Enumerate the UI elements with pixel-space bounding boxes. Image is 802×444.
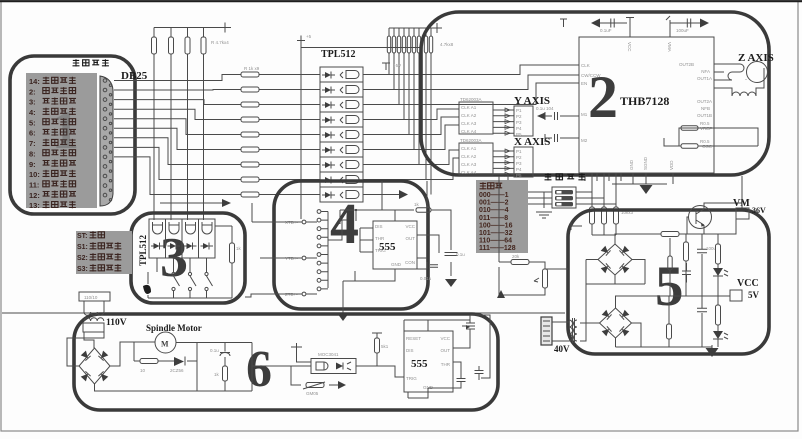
transformer T1 110V <box>79 292 110 301</box>
svg-text:R0.5: R0.5 <box>700 121 710 126</box>
resistor R18 bank <box>407 36 410 53</box>
resistor R7 series <box>241 102 259 107</box>
wire 555 bottom <box>355 262 427 281</box>
DB25 pin 12 <box>103 184 107 188</box>
wire DB25 pin 7 to R11 <box>114 138 241 165</box>
wire block4 gnd drop <box>343 281 355 313</box>
svg-text:DIS: DIS <box>375 224 383 229</box>
label 并行接口 <box>73 59 80 66</box>
DB25 pin 10 <box>103 165 107 169</box>
transformer T2 <box>569 318 577 343</box>
wire U2 bottom pins to dip resistors <box>592 173 616 207</box>
legend box (grey) <box>76 231 132 274</box>
DB25 pin 1 <box>103 79 107 83</box>
svg-text:OUT: OUT <box>441 348 451 353</box>
wire block5 lower rails <box>669 296 718 324</box>
svg-text:Z AXIS: Z AXIS <box>738 52 774 64</box>
svg-text:CW/CCW: CW/CCW <box>581 73 601 78</box>
svg-text:0.1u 104: 0.1u 104 <box>536 106 554 111</box>
resistor R17 bank <box>402 36 405 53</box>
svg-text:4:: 4: <box>29 108 36 117</box>
block 3 outline (limit inputs) <box>131 213 245 303</box>
wire bank rail <box>389 23 442 33</box>
capacitor C15 <box>457 379 466 382</box>
wire U2 bottom stubs <box>585 173 621 181</box>
svg-text:TRIG: TRIG <box>375 248 386 253</box>
resistor R18 over 555 <box>416 208 431 213</box>
DB25 pin 5 <box>103 117 107 121</box>
svg-text:11:: 11: <box>29 181 39 190</box>
motor M1 Z axis <box>747 62 768 83</box>
resistor R41 photoresistor <box>306 383 324 388</box>
diode D3 flyback <box>174 357 184 366</box>
capacitor C16 <box>475 371 484 374</box>
svg-text:6:: 6: <box>29 129 36 138</box>
DB25 pin 3 <box>103 98 107 102</box>
ground below block 4 <box>337 313 349 321</box>
switch S3 limit <box>205 272 208 275</box>
resistor R36 <box>667 324 672 339</box>
connector J1 DB25 body <box>100 76 113 206</box>
optocoupler U8 MOC3041 <box>311 359 356 374</box>
svg-text:13:: 13: <box>29 201 40 210</box>
switch ST stop button <box>143 285 151 294</box>
svg-text:Spindle Motor: Spindle Motor <box>146 323 202 333</box>
svg-text:36V: 36V <box>752 206 766 215</box>
DB25 pin 2 <box>103 88 107 92</box>
wire R13 to optocoupler <box>259 194 320 196</box>
svg-text:R 4.7kx4: R 4.7kx4 <box>211 40 229 45</box>
svg-text:GND: GND <box>629 159 634 170</box>
wire base vref divider <box>669 238 671 296</box>
svg-text:1k: 1k <box>236 246 242 251</box>
DB25 pin 8 <box>103 146 107 150</box>
resistor R15 bank <box>392 36 395 53</box>
svg-text:SGND: SGND <box>643 156 648 170</box>
svg-text:CLK A3: CLK A3 <box>461 121 477 126</box>
capacitor C1 <box>611 19 614 28</box>
resistor R2 pull-up <box>169 37 174 54</box>
resistor R26 dip pulldown <box>590 207 595 224</box>
wire R8 to optocoupler <box>259 119 320 121</box>
wire R9 to optocoupler <box>259 134 320 136</box>
svg-text:P3: P3 <box>516 120 522 125</box>
wire 555-2 top <box>404 320 470 331</box>
resistor R27 dip pulldown <box>602 207 607 224</box>
wire pads to bus <box>306 212 347 295</box>
block 1 outline (parallel port) <box>10 56 135 214</box>
resistor R12 series <box>241 177 259 182</box>
wire B3 out <box>95 342 253 391</box>
wire B1 connections <box>586 234 661 323</box>
switch S1 limit <box>172 272 175 275</box>
optocoupler U3f TPL512 cell <box>320 142 363 157</box>
resistor R40 <box>140 359 158 364</box>
capacitor C5 with arrow <box>537 113 545 120</box>
wire 555-2 bottom <box>408 392 428 398</box>
svg-text:THB7128: THB7128 <box>620 94 669 108</box>
svg-text:S2:: S2: <box>77 255 88 262</box>
pin name table (grey) <box>26 73 97 208</box>
svg-text:0.01u: 0.01u <box>420 276 432 281</box>
svg-text:CLK A1: CLK A1 <box>461 146 477 151</box>
svg-text:2CZ56: 2CZ56 <box>170 368 184 373</box>
svg-text:OUT1A: OUT1A <box>697 76 712 81</box>
connector header Y AXIS <box>514 106 533 136</box>
IC U9 555 body <box>404 331 453 392</box>
resistor R8 series <box>241 117 259 122</box>
svg-text:VMA: VMA <box>667 42 672 52</box>
DB25 pin 4 <box>103 107 107 111</box>
capacitor C11 electrolytic <box>697 308 707 311</box>
svg-text:000——1: 000——1 <box>479 192 509 199</box>
svg-text:010——4: 010——4 <box>479 207 509 214</box>
resistor R14 bank <box>387 36 390 53</box>
svg-text:P5: P5 <box>516 173 522 178</box>
wire spindle signal <box>252 365 311 367</box>
microstep table (grey) <box>476 180 528 253</box>
wire U2 outputs to Z motor <box>714 64 746 80</box>
arrow pulse out <box>399 190 408 199</box>
svg-text:VCC: VCC <box>737 278 759 289</box>
svg-text:4: 4 <box>330 191 359 256</box>
resistor R24 NFB <box>681 144 698 149</box>
DB25 pin 7 <box>103 136 107 140</box>
svg-text:14:: 14: <box>29 77 40 86</box>
resistor R34 <box>684 242 689 261</box>
svg-text:011——8: 011——8 <box>479 215 508 222</box>
wire DB25 pin 8 to R12 <box>114 147 241 179</box>
svg-text:1: 1 <box>52 100 79 160</box>
svg-text:OUT1B: OUT1B <box>697 113 712 118</box>
block 2 outline (driver) <box>421 12 769 175</box>
wire pullups into array <box>154 219 204 220</box>
resistor R30 vref <box>511 260 529 265</box>
wire R11 to optocoupler <box>259 164 320 166</box>
pin tick U8 top <box>291 343 302 347</box>
svg-text:CLK A2: CLK A2 <box>461 113 477 118</box>
wire U8 aux <box>291 347 338 385</box>
block 4 outline (pulse gen) <box>274 181 428 309</box>
svg-text:EN: EN <box>581 81 587 86</box>
wire 555 right <box>417 210 451 276</box>
wire opto rows 4-9 to driver boxes <box>430 109 459 180</box>
svg-text:DIS: DIS <box>406 348 414 353</box>
DB25 pin 9 <box>103 155 107 159</box>
optocoupler U3a TPL512 cell <box>320 67 363 82</box>
connector J2 40V <box>541 317 552 345</box>
resistor R37 <box>716 305 721 325</box>
svg-text:8:: 8: <box>29 149 36 158</box>
optocoupler U3g TPL512 cell <box>320 157 363 172</box>
svg-text:+5V: +5V <box>393 63 401 68</box>
resistor R5 series <box>241 72 259 77</box>
pin block5 input tick <box>571 222 582 230</box>
bridge rectifier B2 <box>600 308 632 338</box>
svg-text:20k: 20k <box>512 254 520 259</box>
block 5 outline (power supply) <box>568 210 769 354</box>
pin VM terminal <box>736 208 749 219</box>
svg-text:P3: P3 <box>516 161 522 166</box>
svg-text:NFB: NFB <box>701 106 710 111</box>
svg-text:MOC3041: MOC3041 <box>318 352 339 357</box>
wire decoupling group B <box>666 16 700 37</box>
resistor R42 <box>375 338 380 353</box>
wire DB25 pin 2 to R6 <box>114 89 241 92</box>
wire 555 top rail <box>340 181 430 224</box>
svg-text:1k: 1k <box>414 202 420 207</box>
svg-text:VCC: VCC <box>440 336 450 341</box>
svg-text:+5: +5 <box>306 34 312 39</box>
bridge rectifier B3 <box>79 348 110 384</box>
wire DIP common left <box>508 175 552 208</box>
resistor R3 pull-up <box>185 37 190 54</box>
svg-text:THR: THR <box>375 236 385 241</box>
DB25 pin 13 <box>103 193 107 197</box>
wire 555 left stubs <box>360 228 373 252</box>
svg-text:110/10: 110/10 <box>84 295 98 300</box>
optocoupler U3i TPL512 cell <box>320 187 363 202</box>
svg-text:M1: M1 <box>581 112 588 117</box>
wire +5V vertical feed <box>300 41 302 220</box>
svg-text:TD62003A: TD62003A <box>460 138 482 143</box>
svg-text:100u: 100u <box>706 246 717 251</box>
pin +5V stub above optocouplers <box>297 36 305 41</box>
svg-text:5k1: 5k1 <box>381 344 389 349</box>
wire motor loop <box>134 343 252 392</box>
pin +5V stub mid <box>382 63 390 70</box>
mosfet Q2 <box>462 315 475 338</box>
svg-text:OUT2B: OUT2B <box>679 62 694 67</box>
ground C8 <box>445 279 457 287</box>
wire pins X AXIS <box>493 151 514 174</box>
svg-text:0.1u: 0.1u <box>210 348 219 353</box>
resistor R22 bank <box>429 36 432 53</box>
arrow signal out <box>338 381 346 389</box>
wire B2 connections <box>582 296 712 347</box>
svg-text:S1:: S1: <box>77 244 88 251</box>
capacitor C13 <box>220 343 230 367</box>
wire pull-ups down to block 3 <box>154 54 204 219</box>
resistor R41v <box>223 366 228 381</box>
wire vref to block5 <box>545 268 568 270</box>
svg-text:TPL512: TPL512 <box>138 234 148 266</box>
svg-text:10: 10 <box>140 368 146 373</box>
svg-text:555: 555 <box>411 358 428 370</box>
svg-text:CLK A3: CLK A3 <box>461 162 477 167</box>
svg-text:P2: P2 <box>516 114 522 119</box>
wire opto outputs row bus <box>363 75 448 195</box>
potentiometer RV1 <box>543 269 548 288</box>
ground block5 <box>706 348 719 357</box>
svg-text:6: 6 <box>246 341 272 398</box>
svg-text:M: M <box>161 340 169 349</box>
svg-text:P1: P1 <box>516 108 522 113</box>
switch SW1 DIP body <box>552 187 576 208</box>
motor M2 spindle <box>155 332 176 353</box>
wire J2 to B2 <box>552 322 586 341</box>
IC U2 THB7128 body <box>579 37 714 173</box>
svg-text:12:: 12: <box>29 191 40 200</box>
svg-text:TPL512: TPL512 <box>321 49 355 60</box>
wire DB25 pin 1 to R5 <box>114 75 241 81</box>
optocoupler U3h TPL512 cell <box>320 172 363 187</box>
wire R7 to optocoupler <box>259 104 320 106</box>
wire DB25 pin 6 to R10 <box>114 128 241 149</box>
block 6 outline (spindle) <box>74 314 498 410</box>
svg-text:NFA: NFA <box>701 69 710 74</box>
wire DB25 pin 4 to R8 <box>114 109 241 119</box>
optocoupler U3b TPL512 cell <box>320 82 363 97</box>
wire +5V horizontal feed <box>301 47 420 49</box>
svg-text:OUT: OUT <box>406 236 416 241</box>
diode D2 LED <box>713 331 723 339</box>
resistor R28 dip pulldown <box>614 207 619 224</box>
resistor R10 series <box>241 147 259 152</box>
wire Q2 drain <box>470 315 490 378</box>
svg-text:OUT2A: OUT2A <box>697 99 712 104</box>
svg-text:P4: P4 <box>516 126 522 131</box>
svg-text:S3:: S3: <box>77 266 88 273</box>
capacitor C8 <box>445 253 458 256</box>
svg-text:0.1uF: 0.1uF <box>600 28 612 33</box>
svg-text:THR: THR <box>441 362 451 367</box>
arrow into block 4 <box>222 199 231 207</box>
svg-text:110——64: 110——64 <box>479 238 512 245</box>
optocoupler U3c TPL512 cell <box>320 97 363 112</box>
svg-text:CON: CON <box>405 260 415 265</box>
svg-text:CLK A4: CLK A4 <box>461 129 477 134</box>
wire R6 to optocoupler <box>259 89 320 91</box>
capacitor C10 electrolytic <box>697 249 707 252</box>
resistor R20 bank <box>417 36 420 53</box>
wire Q1 connections <box>687 203 742 234</box>
resistor R11 series <box>241 162 259 167</box>
svg-text:TD62003A: TD62003A <box>460 97 482 102</box>
resistor R19 bank <box>412 36 415 53</box>
wire VM feed <box>741 176 743 208</box>
svg-text:40V: 40V <box>554 344 570 354</box>
pin +5V tick <box>560 19 567 27</box>
connector header X AXIS <box>514 147 533 177</box>
wire DB25 pin 9 to R13 <box>114 157 241 195</box>
wire U2 left stubs <box>565 65 579 138</box>
optocoupler U7 array <box>149 219 166 258</box>
wire +5V rail top-left <box>154 28 225 38</box>
resistor R21 bank <box>424 36 427 53</box>
wire U2 bottom to ground <box>612 173 673 184</box>
resistor R16 bank <box>397 36 400 53</box>
svg-text:P1: P1 <box>516 149 522 154</box>
capacitor C17 <box>668 256 672 270</box>
wire U8 to 555-2 <box>356 366 404 377</box>
transistor Q1 <box>689 206 712 229</box>
wire decoupling group A <box>599 18 634 38</box>
svg-text:9:: 9: <box>29 160 36 169</box>
svg-text:110V: 110V <box>106 318 127 328</box>
svg-text:GND: GND <box>391 262 402 267</box>
svg-text:2:: 2: <box>29 87 36 96</box>
optocoupler U3d TPL512 cell <box>320 112 363 127</box>
resistor R4 pull-up <box>201 37 206 54</box>
wire DB25 pin 5 to R9 <box>114 119 241 135</box>
DB25 pin 11 <box>103 174 107 178</box>
pin +5V rail end <box>225 23 231 33</box>
resistor R6 series <box>241 87 259 92</box>
resistor R1 pull-up <box>152 37 157 54</box>
svg-text:R0.5: R0.5 <box>700 139 710 144</box>
ground U2 <box>640 185 653 194</box>
label 细分数 <box>480 182 487 189</box>
wire 555-2 right <box>453 338 470 378</box>
svg-text:111——128: 111——128 <box>479 245 516 252</box>
wire mains rail <box>2 312 565 314</box>
svg-text:P4: P4 <box>516 167 522 172</box>
wire opto rows 1-3 to THB7128 inputs <box>448 65 579 105</box>
IC U5 driver X AXIS <box>459 143 493 175</box>
wire DB25 pin 3 to R7 <box>114 100 241 105</box>
svg-text:VCC: VCC <box>627 42 632 52</box>
resistor R13 series <box>241 192 259 197</box>
pin VCC terminal <box>730 290 742 301</box>
DB25 pin 6 <box>103 126 107 130</box>
resistor R33 base <box>661 232 679 237</box>
svg-text:RESET: RESET <box>406 336 421 341</box>
svg-text:CLK: CLK <box>581 63 590 68</box>
capacitor C3 <box>687 19 690 28</box>
wire bank stubs <box>389 28 431 36</box>
svg-text:M2: M2 <box>581 138 588 143</box>
wire arrow feed <box>160 202 222 204</box>
IC U4 driver Y AXIS <box>459 102 493 134</box>
wire R10 to optocoupler <box>259 149 320 151</box>
svg-text:10:: 10: <box>29 170 40 179</box>
svg-text:CLK A4: CLK A4 <box>461 170 477 175</box>
wire T1 to B3 <box>67 332 104 366</box>
svg-text:VDD: VDD <box>669 160 674 170</box>
svg-text:001——2: 001——2 <box>479 200 509 207</box>
svg-text:CLK A2: CLK A2 <box>461 154 477 159</box>
svg-text:CLK A1: CLK A1 <box>461 105 477 110</box>
svg-text:VCC: VCC <box>405 224 415 229</box>
arrow right group B <box>700 19 709 28</box>
resistor R23 NFA <box>680 127 714 129</box>
svg-text:3:: 3: <box>29 98 36 107</box>
svg-text:5:: 5: <box>29 118 36 127</box>
svg-text:GM05: GM05 <box>306 391 319 396</box>
inductor Z coil <box>714 68 764 96</box>
wire switch common <box>148 277 232 298</box>
resistor R9 series <box>241 132 259 137</box>
wire R5 to optocoupler <box>259 74 320 76</box>
bridge rectifier B1 <box>598 244 632 275</box>
svg-text:100——16: 100——16 <box>479 222 513 229</box>
svg-text:7:: 7: <box>29 139 36 148</box>
svg-text:TRIG: TRIG <box>406 376 417 381</box>
wire block5 rails <box>615 219 736 296</box>
wire bank down to rows <box>389 53 431 195</box>
capacitor C9 <box>430 265 438 268</box>
optocoupler U3e TPL512 cell <box>320 127 363 142</box>
svg-text:4.7kx8: 4.7kx8 <box>440 42 454 47</box>
wire pins Y AXIS <box>493 110 514 133</box>
diode D1 LED <box>713 268 723 276</box>
svg-text:0.1u: 0.1u <box>456 252 465 257</box>
wire vref loop <box>499 176 545 295</box>
svg-text:ST:: ST: <box>77 233 88 240</box>
svg-text:P2: P2 <box>516 155 522 160</box>
svg-text:R 1k x9: R 1k x9 <box>244 66 260 71</box>
